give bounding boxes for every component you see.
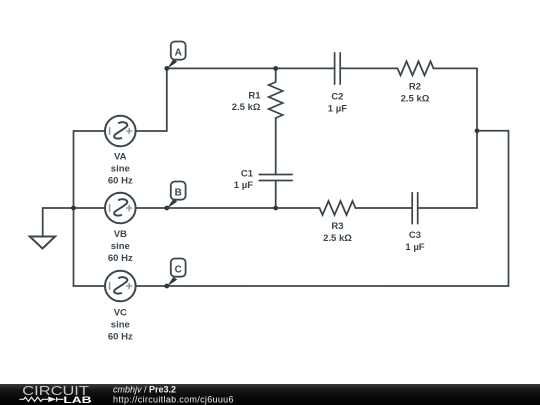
resistor R2 [398, 61, 434, 75]
wire VC left lead [74, 285, 106, 287]
wire R1 top lead [275, 68, 277, 82]
svg-text:R1: R1 [248, 90, 261, 101]
wire node A riser [166, 68, 168, 131]
logo resistor-diode glyph [19, 397, 63, 403]
svg-text:VC: VC [114, 308, 127, 319]
wire VA left lead [74, 130, 106, 132]
svg-text:cmbhjv / Pre3.2: cmbhjv / Pre3.2 [113, 385, 176, 395]
svg-text:2.5 kΩ: 2.5 kΩ [232, 102, 261, 113]
svg-text:B: B [175, 187, 182, 198]
label VC [108, 308, 133, 343]
wire top row: C2 to R2 [340, 67, 397, 69]
capacitor C1 [259, 175, 292, 181]
node B flag [167, 182, 186, 209]
wire left bus [73, 131, 75, 286]
wire right branch at VA row [477, 131, 509, 286]
junction dot node A [164, 66, 169, 71]
junction dot C1 bottom [273, 206, 278, 211]
label C1 value [234, 169, 254, 192]
svg-text:C2: C2 [331, 92, 343, 103]
wire C1 bottom lead [275, 181, 277, 209]
wire VB left lead [74, 207, 106, 209]
svg-text:1 µF: 1 µF [234, 180, 253, 191]
svg-text:C: C [175, 264, 182, 275]
label C2 value [328, 92, 347, 115]
svg-text:LAB: LAB [63, 395, 91, 405]
wire top row: R2 to top-right corner [434, 67, 478, 69]
svg-text:sine: sine [111, 164, 130, 175]
node C flag [167, 259, 186, 287]
label C3 value [405, 230, 424, 253]
capacitor C2 [335, 53, 341, 84]
voltage source VA [105, 116, 136, 147]
svg-text:R2: R2 [409, 82, 421, 93]
svg-text:http://circuitlab.com/cj6uuu6: http://circuitlab.com/cj6uuu6 [113, 394, 234, 404]
voltage source VC [105, 271, 136, 302]
label VA [108, 152, 133, 187]
resistor R1 [269, 82, 283, 118]
wire bottom row C: outer right to VC [136, 285, 509, 287]
junction dot node B [164, 206, 169, 211]
wire ground branch [43, 208, 74, 237]
wire row B: C1 junction to R3 [276, 207, 320, 209]
svg-text:VA: VA [114, 152, 127, 163]
svg-text:C1: C1 [241, 169, 254, 180]
voltage source VB [105, 193, 136, 224]
svg-text:60 Hz: 60 Hz [108, 176, 133, 187]
wire top row: node A to C2 [167, 67, 335, 69]
wire R1 to C1 [275, 118, 277, 175]
svg-text:sine: sine [111, 241, 130, 252]
svg-text:C3: C3 [409, 230, 421, 241]
label R3 value [323, 221, 352, 244]
footer bar [0, 384, 540, 405]
wire row B: node B to C1 junction [167, 207, 276, 209]
svg-text:A: A [175, 47, 182, 58]
resistor R3 [320, 201, 356, 215]
svg-text:R3: R3 [331, 221, 343, 232]
svg-text:2.5 kΩ: 2.5 kΩ [323, 233, 352, 244]
label R2 value [401, 82, 430, 105]
wire inner right vertical [476, 68, 478, 208]
svg-text:1 µF: 1 µF [405, 242, 424, 253]
svg-text:2.5 kΩ: 2.5 kΩ [401, 94, 430, 105]
junction dot right branch [475, 128, 480, 133]
capacitor C3 [412, 193, 418, 224]
wire row B: C3 to inner right vertical [418, 207, 477, 209]
svg-text:1 µF: 1 µF [328, 104, 347, 115]
wire VA right lead [136, 130, 167, 132]
svg-text:VB: VB [114, 229, 127, 240]
svg-text:60 Hz: 60 Hz [108, 332, 133, 343]
svg-text:60 Hz: 60 Hz [108, 253, 133, 264]
junction dot R1 top [273, 66, 278, 71]
junction dot node C [164, 284, 169, 289]
wire row B: R3 to C3 [356, 207, 413, 209]
wire VB right lead to node B [136, 207, 167, 209]
node A flag [167, 42, 186, 69]
junction dot ground bus [71, 206, 76, 211]
svg-text:sine: sine [111, 320, 130, 331]
label VB [108, 229, 133, 264]
ground [30, 237, 55, 249]
label R1 value [232, 90, 261, 113]
